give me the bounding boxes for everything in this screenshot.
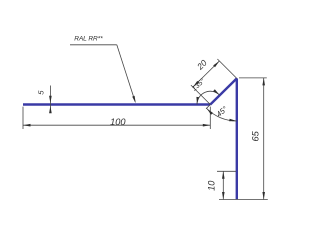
dimension 20: extension line from bend start	[191, 85, 210, 104]
dimension 135deg: arc	[197, 91, 220, 104]
svg-text:20: 20	[194, 58, 209, 73]
svg-text:45°: 45°	[215, 104, 230, 118]
dimension 20: upper-right arrow	[213, 61, 219, 67]
dimension 100: right arrow	[203, 124, 211, 127]
dimension 45deg: diagonal extension line beyond bend	[206, 105, 210, 109]
svg-text:RAL RR**: RAL RR**	[74, 35, 103, 42]
dimension 100: left arrow	[23, 124, 31, 127]
dimension 5: lower arrow	[49, 106, 52, 114]
dimension 45deg: arrow on vertical leg	[229, 119, 237, 122]
svg-text:135°: 135°	[190, 77, 206, 93]
dimension 100: dimension line	[23, 124, 210, 126]
dimension 65: bottom arrow	[262, 192, 265, 200]
dimension 20: dimension line	[193, 61, 220, 87]
svg-text:100: 100	[110, 117, 126, 127]
svg-text:5: 5	[37, 90, 46, 95]
dimension 100: left extension line	[22, 107, 24, 129]
dimension 10: top arrow	[222, 171, 225, 179]
dimension 10: dimension line	[222, 171, 224, 199]
dimension 65: top arrow	[262, 78, 265, 86]
dimension 65: bottom extension line	[219, 199, 268, 201]
dimension 45deg: arc	[207, 109, 237, 122]
dimension 5: thickness line	[49, 86, 51, 113]
dimension 20: extension line from corner	[217, 59, 236, 78]
profile 45-degree bend segment (20)	[210, 78, 237, 104]
dimension 100: right extension line	[209, 107, 211, 129]
dimension 135deg: arrow on horizontal line	[196, 97, 199, 105]
dimension 45deg: arrow on diagonal extension	[207, 109, 213, 115]
dimension 5: upper arrow	[49, 96, 52, 104]
dimension 10: bottom arrow	[222, 192, 225, 200]
dimension 65: dimension line	[263, 78, 265, 200]
leader note: arrow on flange	[132, 96, 136, 104]
dimension 20: lower-left arrow	[193, 81, 199, 87]
leader note: leader line	[117, 45, 135, 102]
profile horizontal flange (100)	[23, 103, 210, 105]
svg-text:65: 65	[251, 130, 261, 141]
dimension 65: top extension line	[239, 77, 267, 79]
dimension 10: top extension line	[217, 170, 236, 172]
leader note: shelf line	[70, 44, 117, 46]
profile vertical leg (65)	[236, 78, 238, 199]
dimension 135deg: arrow on bend line	[213, 89, 220, 95]
svg-text:10: 10	[206, 180, 216, 191]
